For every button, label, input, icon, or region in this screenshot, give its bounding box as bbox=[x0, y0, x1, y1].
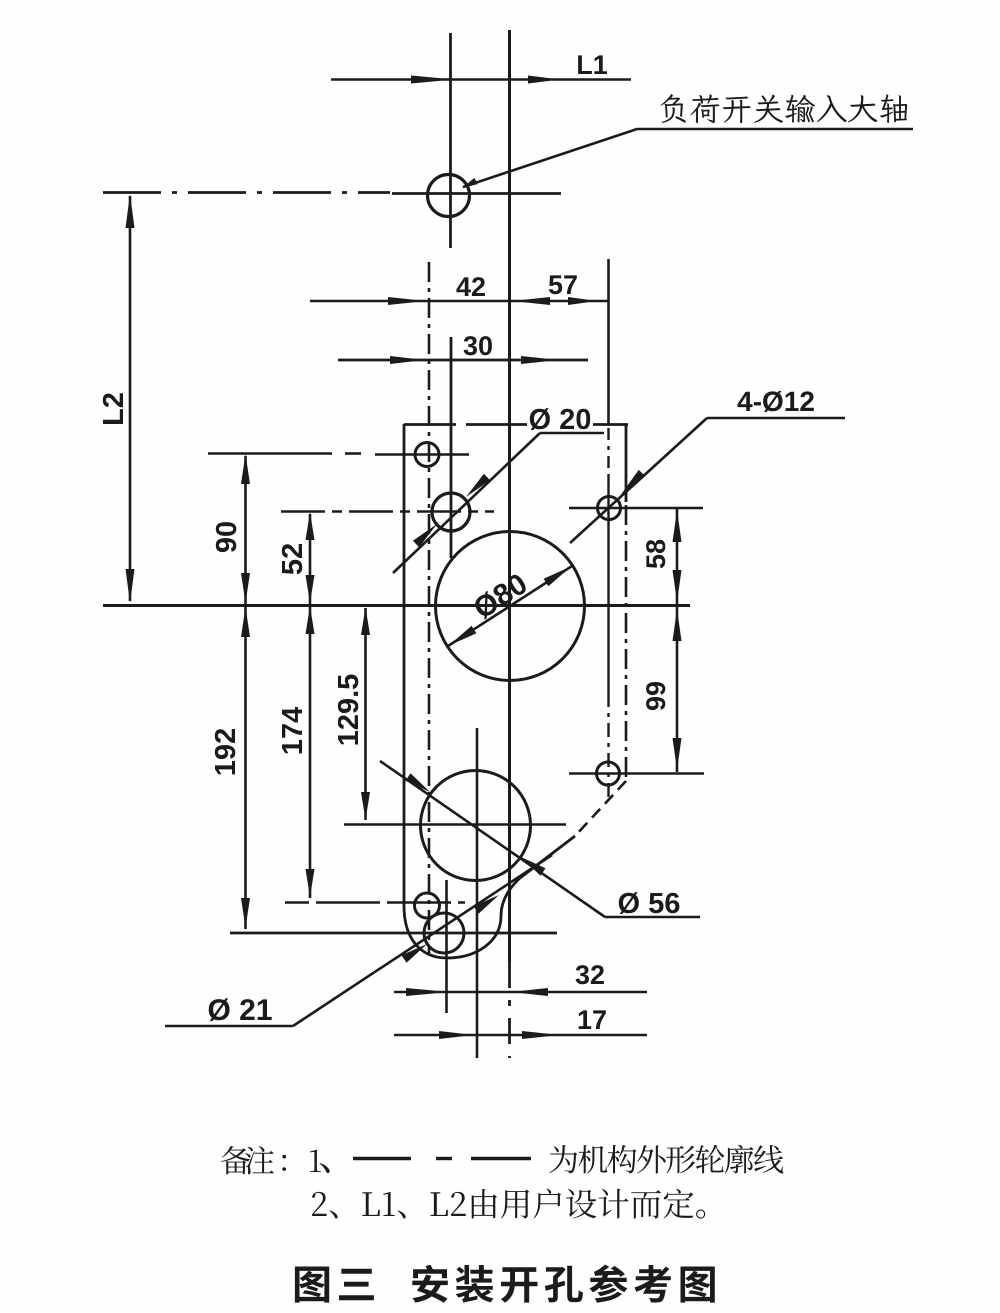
leader D80 arrow upper-right bbox=[544, 567, 571, 587]
dimension 52/174 line bbox=[309, 514, 312, 898]
title part1 (CJK) bbox=[295, 1267, 374, 1303]
dimension 192 arrow bottom bbox=[241, 898, 250, 928]
wire vertical extension x=446 bottom bbox=[445, 880, 448, 1013]
wire centerline y=508 right hole bbox=[569, 507, 703, 510]
dimension 57 arrow left bbox=[524, 297, 550, 305]
dimension 174 arrow top bbox=[306, 606, 315, 634]
leader line to shaft label bbox=[463, 129, 913, 187]
leader 4-D12 arrow bbox=[620, 470, 645, 496]
dimension 42 arrow bbox=[388, 297, 414, 305]
circle D21 bottom small bbox=[424, 913, 464, 953]
leader D20 underline bbox=[540, 432, 604, 435]
leader D20 arrow lower bbox=[413, 524, 437, 547]
label 52 bbox=[282, 544, 303, 574]
dimension 58 arrow bottom bbox=[673, 570, 682, 602]
label 90 bbox=[216, 522, 237, 552]
dimension 30 arrow right bbox=[521, 356, 547, 364]
dimension 30 line bbox=[338, 359, 588, 362]
dimension 90 arrow bottom bbox=[241, 573, 250, 603]
dimension 99 arrow bottom bbox=[673, 738, 682, 770]
wire vertical hole centerline x=608 solid mid bbox=[607, 476, 609, 693]
leader D21 arrow lower bbox=[402, 944, 428, 963]
hole 4-D12 bottom-left bbox=[415, 893, 440, 918]
dimension 17 arrow right bbox=[522, 1031, 548, 1039]
circle D80 center hole bbox=[436, 532, 585, 681]
leader arrowhead at shaft circle bbox=[462, 178, 478, 188]
hole D20 bbox=[432, 493, 470, 531]
wire vertical centerline x=450 lower through hole D20 bbox=[450, 337, 453, 558]
wire vertical centerline bottom circle x=477 bbox=[476, 728, 479, 1058]
dimension 192 arrow top bbox=[241, 607, 250, 637]
dimension 90 arrow top bbox=[241, 454, 250, 484]
circle: load-switch input shaft bbox=[428, 175, 470, 217]
dimension L2 arrow top bbox=[126, 194, 135, 228]
dimension 129.5 line bbox=[364, 608, 367, 820]
plate right edge solid bbox=[625, 424, 628, 502]
wire centerline y=453 left part bbox=[208, 452, 332, 455]
label L1 bbox=[578, 55, 607, 74]
note legend dash long1 bbox=[353, 1157, 411, 1160]
leader D21 diagonal bbox=[293, 855, 552, 1026]
dimension 17 line bbox=[394, 1034, 647, 1037]
leader 4-D12 underline bbox=[707, 417, 845, 420]
wire main vertical centerline x=510 lower dash bbox=[508, 962, 511, 1058]
leader D21 arrow upper bbox=[474, 895, 500, 914]
plate bottom tab outline bbox=[404, 836, 575, 958]
dimension 57 arrow right bbox=[568, 297, 588, 305]
plate top edge seg2 bbox=[466, 423, 527, 426]
label: load switch input shaft (CJK) bbox=[661, 94, 908, 123]
dimension L2 arrow bottom bbox=[126, 569, 135, 603]
hole 4-D12 bottom-right bbox=[597, 762, 620, 785]
dimension 30 arrow left bbox=[390, 356, 414, 364]
label D56 bbox=[619, 892, 680, 914]
dimension 52 arrow bottom bbox=[306, 575, 315, 603]
wire vertical centerline x=450 upper (shaft axis) bbox=[449, 33, 452, 248]
dimension 90/192 line bbox=[244, 456, 247, 929]
dimension 129.5 arrow top bbox=[361, 607, 370, 635]
label D80 rotated bbox=[475, 575, 525, 620]
wire vertical hole centerline x=608 upper bbox=[607, 259, 610, 424]
wire centerline y=453 dash bbox=[345, 452, 361, 455]
wire horizontal centerline y=192 through shaft circle bbox=[392, 192, 561, 195]
plate top edge seg1 bbox=[404, 423, 456, 426]
hole 4-D12 top-left bbox=[415, 443, 439, 467]
dimension 42/57 line bbox=[310, 300, 608, 303]
wire centerline y=824 bottom circle bbox=[344, 823, 566, 826]
note line1 text (CJK) bbox=[549, 1145, 783, 1174]
label 32 bbox=[576, 965, 604, 984]
dimension 32 line bbox=[394, 991, 647, 994]
dimension 99 arrow top bbox=[673, 609, 682, 641]
plate right edge dash-dot bbox=[625, 505, 628, 779]
label 17 bbox=[579, 1010, 606, 1029]
leader D56 underline bbox=[605, 916, 700, 919]
leader D20 diagonal bbox=[393, 433, 540, 573]
dimension L1 line bbox=[331, 78, 631, 81]
leader 4-D12 diagonal bbox=[570, 418, 707, 543]
label 192 bbox=[215, 729, 236, 774]
leader D56 arrow upper-left bbox=[406, 773, 431, 792]
label D21 bbox=[209, 998, 272, 1021]
note line1 colon (CJK) bbox=[282, 1155, 286, 1171]
note line1 digit 1 bbox=[310, 1150, 321, 1172]
dimension 17 arrow left bbox=[439, 1031, 463, 1039]
label 42 bbox=[456, 277, 485, 296]
plate corner diagonal dashed bbox=[575, 781, 626, 836]
note line1 dunhao (CJK) bbox=[320, 1163, 330, 1173]
note legend dash long2 bbox=[471, 1157, 531, 1160]
label D20 bbox=[530, 408, 590, 430]
wire centerline y=453 right part bbox=[375, 453, 469, 456]
label 4-D12 bbox=[738, 391, 814, 412]
dimension L1 arrow left bbox=[411, 76, 441, 84]
dimension 174 arrow bottom bbox=[306, 869, 315, 897]
leader D21 underline bbox=[165, 1025, 293, 1028]
dimension 129.5 arrow bottom bbox=[361, 792, 370, 820]
leader D80 arrow lower-left bbox=[449, 626, 476, 646]
wire vertical hole centerline x=608 dash upper bbox=[607, 428, 609, 476]
leader D20 arrow upper bbox=[466, 474, 490, 497]
dimension L1 arrow right bbox=[528, 76, 550, 84]
dimension L2 line bbox=[129, 196, 132, 601]
leader D56 diagonal bbox=[380, 761, 605, 917]
plate left edge bbox=[403, 424, 406, 906]
wire vertical dash-dot mechanism line x=429 bbox=[428, 262, 431, 955]
dimension 58 arrow top bbox=[673, 510, 682, 542]
dimension 58/99 line bbox=[676, 508, 679, 772]
plate top edge seg3 bbox=[593, 423, 628, 426]
label 30 bbox=[464, 336, 492, 355]
leader D56 arrow lower-right bbox=[521, 857, 546, 876]
wire vertical hole centerline x=608 dash lower bbox=[607, 693, 609, 800]
label 57 bbox=[549, 275, 577, 294]
circle D56 bottom bbox=[421, 771, 531, 881]
wire horizontal dash-dot centerline y=192 left bbox=[103, 191, 390, 194]
wire main vertical centerline x=510 bbox=[508, 30, 511, 962]
wire centerline y=773 bottom right hole bbox=[569, 772, 704, 775]
wire horizontal long centerline y=605 (D80 axis) bbox=[103, 604, 690, 607]
label L2 bbox=[103, 393, 123, 424]
note line1 prefix BeiZhu (CJK) bbox=[221, 1146, 274, 1174]
note legend dash short bbox=[436, 1157, 452, 1160]
leader D80 diameter line bbox=[448, 566, 572, 646]
dimension 32 arrow right bbox=[522, 988, 548, 996]
wire centerline y=511 bbox=[281, 510, 494, 513]
note line2 (CJK) bbox=[312, 1189, 705, 1219]
dimension 32 arrow left bbox=[406, 988, 436, 996]
wire centerline y=933 D21 bbox=[230, 932, 557, 935]
label 99 bbox=[646, 682, 665, 710]
label 58 bbox=[646, 540, 665, 568]
wire centerline y=902 bottom-left hole bbox=[285, 901, 465, 904]
label 129.5 bbox=[338, 675, 359, 745]
label 174 bbox=[282, 707, 302, 753]
title part2 (CJK) bbox=[412, 1265, 715, 1303]
hole 4-D12 top-right bbox=[598, 497, 621, 520]
dimension 52 arrow top bbox=[306, 512, 315, 540]
